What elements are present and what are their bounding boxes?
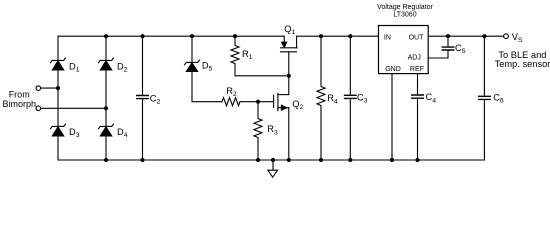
capacitor C6 plates — [479, 96, 491, 99]
node terminal B / right rail — [104, 106, 108, 110]
svg-text:R3: R3 — [267, 124, 278, 136]
wire bottom ground rail — [58, 159, 484, 161]
transistor Q2 (N-MOSFET) — [274, 93, 289, 110]
svg-text:C6: C6 — [493, 93, 504, 105]
svg-text:LT3060: LT3060 — [393, 12, 416, 19]
svg-text:Q2: Q2 — [292, 99, 303, 111]
node R2/R3/Q2 gate — [256, 100, 260, 104]
svg-text:REF: REF — [410, 66, 424, 73]
wire top rail (Q1 to regulator IN) — [297, 35, 379, 37]
capacitor C2 plates — [137, 96, 149, 99]
diode D2 (zener) — [99, 58, 114, 70]
voltage regulator U1 box — [379, 26, 429, 74]
wire OUT rail (regulator OUT to Vs terminal) — [428, 35, 503, 37]
svg-text:Temp. sensor: Temp. sensor — [495, 59, 550, 69]
wire GND pin to ground rail — [391, 74, 393, 160]
capacitor C6 column wires — [483, 36, 485, 160]
wire gate node to Q2 gate — [258, 101, 274, 103]
node bottom rail / C2 — [140, 158, 144, 162]
diode D3 (zener) — [51, 124, 66, 136]
resistor R4 column — [317, 36, 325, 160]
node R1 / Q1 gate / Q2 drain — [287, 74, 291, 78]
resistor R3 column — [254, 102, 262, 160]
svg-text:IN: IN — [384, 34, 391, 41]
svg-text:R1: R1 — [242, 49, 253, 61]
node bottom rail / GND pin — [390, 158, 394, 162]
wire Q2 source to ground rail — [288, 108, 290, 160]
capacitor C3 plates — [345, 95, 357, 98]
svg-text:VS: VS — [512, 32, 523, 44]
node OUT / C5 — [446, 34, 450, 38]
terminal input B (From Bimorph bottom) — [36, 106, 41, 111]
svg-text:C2: C2 — [150, 93, 161, 105]
transistor Q1 (P-MOSFET, horizontal) — [281, 36, 298, 52]
wire terminal B to right rail (crosses left rail) — [41, 107, 106, 109]
svg-text:D3: D3 — [69, 127, 80, 139]
ground symbol — [268, 160, 278, 177]
wire Q1 gate / Q2 drain vertical — [288, 52, 290, 95]
node bottom rail / Q2 source — [287, 158, 291, 162]
svg-text:D5: D5 — [202, 60, 213, 72]
terminal Vs output — [504, 34, 509, 39]
svg-text:R4: R4 — [327, 93, 338, 105]
node bottom rail / C3 — [348, 158, 352, 162]
svg-text:D1: D1 — [69, 61, 80, 73]
svg-text:Q1: Q1 — [284, 24, 295, 36]
node top rail / R1 — [233, 34, 237, 38]
node top rail / R4 — [319, 34, 323, 38]
capacitor C2 column wires — [142, 36, 144, 160]
resistor R1 column — [231, 36, 289, 76]
terminal input A (From Bimorph top) — [36, 86, 41, 91]
svg-text:C3: C3 — [357, 93, 368, 105]
diode D5 symbol — [185, 60, 200, 71]
svg-text:D4: D4 — [117, 127, 128, 139]
capacitor C5 branch (OUT to ADJ) — [428, 36, 448, 58]
wire left bridge rail (D1/D3 column) — [57, 36, 59, 160]
node bottom rail / R3 — [256, 158, 260, 162]
resistor R2 (horizontal) — [222, 98, 258, 106]
capacitor C4 plates — [412, 95, 424, 98]
svg-text:From: From — [9, 89, 30, 99]
wire terminal A to left rail — [41, 87, 58, 89]
diode D5 (zener) column and wire to R2 — [192, 36, 222, 102]
wire REF pin column — [417, 74, 419, 160]
wire top rail (left of Q1) — [58, 35, 284, 37]
diode D1 (zener) — [51, 58, 66, 70]
wire right bridge rail (D2/D4 column) — [105, 36, 107, 160]
node top rail / C2 — [140, 34, 144, 38]
node bottom rail / D4 — [104, 158, 108, 162]
node top rail / D5 — [190, 34, 194, 38]
node bottom rail / R4 — [319, 158, 323, 162]
node OUT / C6 — [482, 34, 486, 38]
node terminal A / left rail — [56, 86, 60, 90]
node bottom rail / REF-C4 — [415, 158, 419, 162]
svg-text:C4: C4 — [426, 92, 437, 104]
svg-text:ADJ: ADJ — [408, 55, 421, 62]
svg-text:Voltage Regulator: Voltage Regulator — [377, 4, 433, 11]
svg-text:R2: R2 — [226, 86, 237, 98]
svg-text:GND: GND — [385, 66, 401, 73]
node top rail / D2 — [104, 34, 108, 38]
svg-text:OUT: OUT — [409, 34, 425, 41]
capacitor C3 column wires — [349, 36, 351, 160]
node bottom rail / ground stub — [271, 158, 275, 162]
svg-text:D2: D2 — [117, 61, 128, 73]
capacitor C5 plates — [442, 47, 454, 50]
diode D4 (zener) — [99, 124, 114, 136]
node top rail / C3 — [348, 34, 352, 38]
svg-text:Bimorph: Bimorph — [3, 99, 37, 109]
svg-text:C5: C5 — [455, 43, 466, 55]
